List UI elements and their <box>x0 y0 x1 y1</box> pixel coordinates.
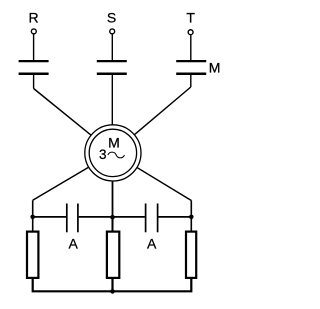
svg-text:M: M <box>108 135 120 151</box>
svg-text:M: M <box>209 60 221 76</box>
svg-text:S: S <box>107 10 116 26</box>
svg-text:T: T <box>186 10 195 26</box>
svg-text:A: A <box>69 235 79 251</box>
svg-text:R: R <box>29 10 39 26</box>
svg-text:A: A <box>147 235 157 251</box>
svg-text:3: 3 <box>99 147 107 162</box>
